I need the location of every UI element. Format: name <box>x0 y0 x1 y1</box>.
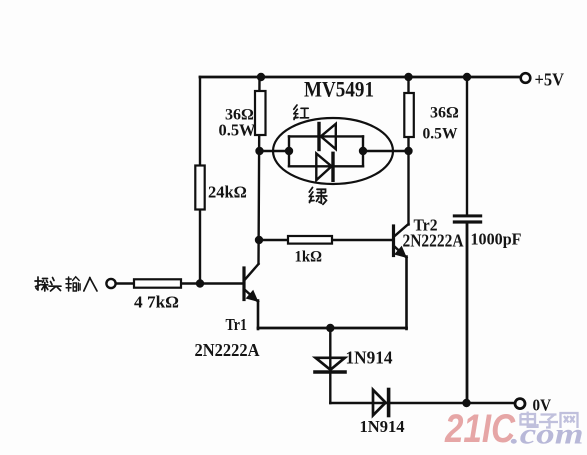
svg-text:0.5W: 0.5W <box>219 121 256 140</box>
svg-text:+5V: +5V <box>535 70 565 90</box>
svg-text:1N914: 1N914 <box>346 348 393 368</box>
svg-text:1000pF: 1000pF <box>471 230 522 249</box>
svg-text:2N2222A: 2N2222A <box>195 340 260 360</box>
svg-text:2N2222A: 2N2222A <box>403 231 464 251</box>
svg-text:24kΩ: 24kΩ <box>208 183 247 202</box>
svg-text:MV5491: MV5491 <box>304 77 374 102</box>
svg-text:0.5W: 0.5W <box>423 126 458 143</box>
svg-text:21IC: 21IC <box>444 407 516 451</box>
svg-text:36Ω: 36Ω <box>430 105 459 122</box>
svg-text:1N914: 1N914 <box>360 417 405 436</box>
svg-text:1kΩ: 1kΩ <box>295 249 323 266</box>
svg-text:4 7kΩ: 4 7kΩ <box>134 293 179 312</box>
svg-text:0V: 0V <box>533 396 552 415</box>
svg-text:Tr1: Tr1 <box>226 315 248 334</box>
